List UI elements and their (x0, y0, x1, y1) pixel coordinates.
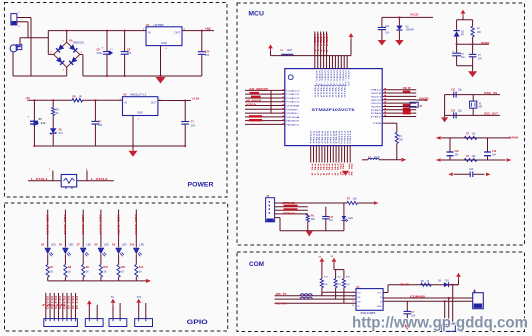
svg-text:VDD_11: VDD_11 (347, 70, 349, 86)
svg-text:PB112: PB112 (345, 131, 347, 144)
svg-text:OUT: OUT (175, 31, 181, 35)
svg-text:5V: 5V (111, 296, 114, 299)
svg-text:PB_5: PB_5 (325, 164, 327, 178)
svg-text:PB_8: PB_8 (333, 164, 335, 178)
svg-text:PB_4: PB_4 (322, 164, 325, 178)
svg-text:PB16: PB16 (328, 131, 330, 144)
svg-text:104: 104 (191, 124, 196, 127)
svg-text:AD_IN3/YM: AD_IN3/YM (246, 100, 261, 103)
svg-text:PB_13: PB_13 (347, 164, 349, 178)
svg-text:P2.6_IO: P2.6_IO (71, 296, 74, 309)
svg-text:C18: C18 (455, 151, 460, 153)
svg-text:PB_2: PB_2 (316, 164, 318, 178)
svg-text:P2.7_IO: P2.7_IO (75, 296, 78, 309)
svg-text:OUT: OUT (151, 101, 157, 104)
svg-text:4.7u: 4.7u (41, 122, 46, 125)
svg-text:LED: LED (140, 244, 145, 247)
svg-text:PB19: PB19 (340, 85, 342, 98)
svg-text:LED_OUT3: LED_OUT3 (81, 215, 85, 236)
svg-text:PB_3: PB_3 (319, 164, 321, 178)
svg-text:1N4148: 1N4148 (406, 29, 415, 31)
svg-text:GND: GND (161, 41, 167, 45)
svg-text:C?: C? (98, 121, 102, 124)
svg-text:PA1/ADC1: PA1/ADC1 (286, 123, 300, 126)
svg-text:STM32F103VCT6: STM32F103VCT6 (312, 107, 356, 112)
svg-text:10uH: 10uH (287, 49, 293, 52)
svg-text:3V3: 3V3 (137, 296, 142, 299)
svg-text:PB15: PB15 (325, 131, 327, 144)
svg-text:VDDA_4: VDDA_4 (325, 34, 329, 53)
svg-text:PB_1: PB_1 (314, 164, 316, 178)
svg-text:104: 104 (127, 52, 132, 55)
svg-text:10K: 10K (324, 284, 328, 286)
svg-text:RO: RO (358, 293, 362, 295)
svg-text:PB16: PB16 (331, 85, 333, 98)
svg-text:1K: 1K (139, 271, 142, 274)
svg-text:C17: C17 (329, 217, 334, 219)
svg-text:J?: J? (266, 195, 269, 198)
svg-text:OSC_OUT: OSC_OUT (484, 112, 498, 116)
svg-text:PB114: PB114 (350, 131, 352, 144)
svg-text:10K: 10K (338, 284, 342, 286)
svg-text:BRIDGE1: BRIDGE1 (73, 41, 85, 44)
svg-text:VCC: VCC (377, 293, 382, 295)
svg-text:DI: DI (358, 306, 361, 308)
svg-text:PB10: PB10 (313, 85, 315, 98)
svg-text:PB_10: PB_10 (339, 164, 341, 178)
svg-text:PB17: PB17 (330, 131, 332, 144)
svg-text:PB113: PB113 (347, 131, 349, 144)
svg-text:PB12: PB12 (316, 131, 318, 144)
svg-text:LED: LED (69, 244, 74, 247)
svg-text:VREF+: VREF+ (286, 113, 301, 115)
svg-text:PB_9: PB_9 (336, 164, 338, 178)
svg-text:2K: 2K (56, 112, 59, 115)
svg-text:PA0/WKUP: PA0/WKUP (286, 120, 300, 123)
svg-text:PB110: PB110 (343, 85, 345, 98)
svg-text:+5V: +5V (205, 27, 212, 31)
svg-text:8M: 8M (479, 107, 482, 109)
svg-text:VCC33: VCC33 (410, 13, 419, 17)
svg-text:+5V: +5V (25, 96, 30, 100)
svg-text:LED_OUT6: LED_OUT6 (134, 215, 138, 236)
svg-text:1K: 1K (68, 271, 71, 274)
svg-text:+: + (102, 46, 104, 50)
svg-text:PC0/ADC10: PC0/ADC10 (286, 89, 300, 92)
svg-text:PB13: PB13 (319, 131, 321, 144)
svg-text:LED_OUT1: LED_OUT1 (46, 215, 50, 236)
svg-text:PB14: PB14 (325, 85, 327, 98)
svg-text:PB_0: PB_0 (311, 164, 313, 178)
svg-text:PB10: PB10 (311, 131, 313, 144)
svg-text:PB17: PB17 (334, 85, 336, 98)
svg-text:L_XTAL1: L_XTAL1 (31, 177, 48, 181)
svg-text:10uH: 10uH (374, 157, 380, 159)
svg-text:485_TX: 485_TX (276, 292, 287, 296)
svg-text:5V1: 5V1 (59, 132, 64, 135)
svg-text:C24: C24 (385, 26, 390, 28)
svg-text:R11: R11 (121, 266, 126, 269)
svg-text:RESET: RESET (481, 42, 490, 45)
svg-text:C19: C19 (492, 151, 497, 153)
svg-text:JP: JP (419, 106, 422, 108)
svg-text:1R: 1R (79, 96, 82, 99)
svg-text:TVS: TVS (445, 281, 450, 283)
svg-text:U4: U4 (356, 285, 360, 289)
svg-text:LED: LED (86, 244, 91, 247)
svg-text:USB_DP: USB_DP (403, 87, 411, 90)
svg-text:PA13/JTMS: PA13/JTMS (371, 92, 382, 95)
svg-text:LM7805: LM7805 (154, 23, 165, 27)
svg-text:+3.3V: +3.3V (192, 97, 200, 101)
svg-text:10K: 10K (353, 197, 358, 200)
svg-text:PB18: PB18 (337, 85, 339, 98)
svg-text:JTAG_P2X: JTAG_P2X (42, 303, 66, 307)
svg-text:RE: RE (358, 297, 362, 299)
svg-text:VDDA: VDDA (286, 116, 301, 119)
svg-text:470u: 470u (97, 52, 103, 55)
svg-text:10K: 10K (346, 284, 350, 286)
svg-text:PB_11: PB_11 (342, 164, 344, 178)
svg-text:IN: IN (148, 31, 151, 35)
svg-text:485_EN: 485_EN (399, 284, 409, 287)
svg-text:U1: U1 (146, 23, 150, 27)
svg-text:GPIO: GPIO (187, 319, 208, 326)
svg-text:LED: LED (104, 244, 109, 247)
svg-text:C22: C22 (451, 110, 456, 112)
svg-text:PB11: PB11 (314, 131, 316, 144)
svg-text:http://www.gp-gddq.com: http://www.gp-gddq.com (352, 314, 528, 331)
svg-text:MCU: MCU (248, 10, 264, 17)
svg-text:10K: 10K (311, 219, 316, 221)
svg-text:PB110: PB110 (339, 131, 341, 144)
svg-text:PC3/ADC13: PC3/ADC13 (286, 101, 300, 104)
svg-text:LED: LED (348, 218, 353, 220)
svg-text:PB_14: PB_14 (350, 164, 353, 178)
svg-text:VSSA: VSSA (246, 104, 256, 107)
svg-text:LED: LED (122, 244, 127, 247)
svg-text:10K: 10K (477, 32, 482, 34)
svg-text:1K: 1K (121, 271, 124, 274)
svg-text:D10: D10 (130, 244, 135, 247)
svg-text:PC1/ADC11: PC1/ADC11 (286, 93, 300, 96)
svg-text:R12: R12 (139, 266, 144, 269)
svg-text:485_RX: 485_RX (276, 301, 287, 305)
svg-text:PB_6: PB_6 (328, 164, 330, 178)
svg-text:DE: DE (358, 302, 362, 304)
svg-text:10K: 10K (399, 140, 404, 142)
svg-text:104: 104 (98, 124, 103, 127)
svg-text:C10: C10 (205, 51, 210, 54)
svg-text:PB14: PB14 (322, 131, 324, 144)
svg-text:PB18: PB18 (333, 131, 335, 144)
svg-text:1K: 1K (50, 271, 53, 274)
svg-text:PB19: PB19 (336, 131, 338, 144)
svg-text:C?: C? (191, 121, 195, 124)
svg-text:COM: COM (249, 261, 264, 268)
svg-text:P2.5_IO: P2.5_IO (67, 296, 70, 309)
svg-text:LED_OUT4: LED_OUT4 (99, 215, 103, 236)
svg-text:PB111: PB111 (342, 131, 344, 144)
svg-text:PC2/ADC12: PC2/ADC12 (286, 97, 300, 100)
svg-text:PB13: PB13 (322, 85, 324, 98)
svg-text:AMS1117-3.3: AMS1117-3.3 (130, 93, 147, 97)
svg-text:PB11: PB11 (316, 85, 318, 98)
svg-text:JTMS: JTMS (282, 202, 296, 205)
svg-text:PA15/JTDI: PA15/JTDI (371, 99, 381, 102)
svg-text:PB12: PB12 (319, 85, 321, 98)
svg-text:104: 104 (205, 54, 210, 57)
svg-text:R10: R10 (104, 266, 109, 269)
svg-text:AD_IN0/XP: AD_IN0/XP (249, 88, 269, 91)
svg-text:PB4/JNRST: PB4/JNRST (371, 106, 382, 108)
svg-text:PB15: PB15 (328, 85, 330, 98)
svg-text:C20: C20 (469, 169, 474, 171)
svg-text:POWER: POWER (188, 182, 214, 189)
svg-text:C21: C21 (451, 90, 456, 92)
svg-text:1K: 1K (104, 271, 107, 274)
svg-text:LED: LED (51, 244, 56, 247)
svg-text:VREF-: VREF- (286, 109, 300, 111)
svg-text:VSSA: VSSA (286, 105, 301, 108)
svg-text:GND: GND (377, 306, 382, 308)
svg-text:LED_OUT2: LED_OUT2 (63, 215, 67, 236)
svg-text:U2: U2 (123, 93, 127, 97)
svg-text:IN: IN (125, 101, 128, 104)
svg-text:CANH: CANH (509, 137, 518, 140)
svg-text:CON485: CON485 (410, 295, 426, 298)
svg-text:OSC_IN: OSC_IN (484, 91, 497, 95)
svg-text:1K: 1K (86, 271, 89, 274)
svg-text:PB_7: PB_7 (330, 164, 332, 178)
svg-text:JTDO: JTDO (282, 213, 295, 216)
svg-text:GND: GND (137, 112, 143, 115)
svg-text:L_XTAL2: L_XTAL2 (91, 177, 108, 181)
svg-text:PB3/JTDO: PB3/JTDO (371, 103, 381, 105)
svg-text:PA14/JTCK: PA14/JTCK (371, 95, 382, 98)
